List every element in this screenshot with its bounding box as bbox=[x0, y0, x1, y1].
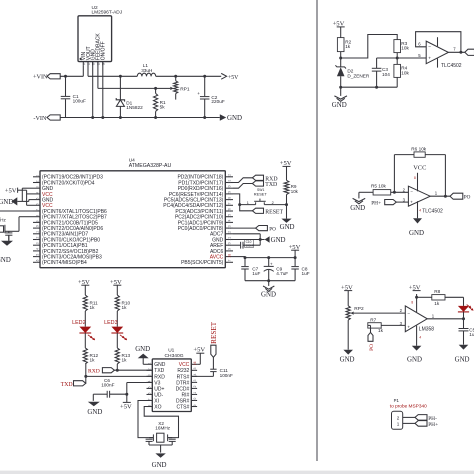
GND output arrow bbox=[220, 114, 242, 122]
node R2 D2 junction bbox=[339, 57, 342, 60]
GND arrow for GND pins bbox=[0, 188, 33, 206]
wire TXD line to U1 bbox=[86, 375, 153, 377]
svg-text:2: 2 bbox=[35, 180, 39, 182]
wire R13 to RXD line bbox=[116, 364, 119, 372]
svg-text:RESET: RESET bbox=[254, 191, 268, 196]
ground for C6 bbox=[87, 394, 102, 416]
wire RP2 wiper to inverting input bbox=[354, 312, 406, 314]
svg-text:8: 8 bbox=[414, 176, 416, 180]
+5V supply for AVCC bbox=[289, 244, 301, 258]
node feedback junction c2 bbox=[393, 191, 396, 194]
svg-text:4: 4 bbox=[148, 380, 152, 382]
svg-text:GND: GND bbox=[332, 102, 347, 109]
svg-text:9: 9 bbox=[193, 404, 197, 406]
svg-text:23: 23 bbox=[228, 225, 232, 229]
+5V supply for R2 bbox=[333, 21, 345, 38]
svg-text:TLC4502: TLC4502 bbox=[422, 208, 443, 214]
wire V3 pin to C6 bbox=[127, 383, 153, 395]
wire R5 left to ground bbox=[359, 192, 373, 198]
wire node A to R3 top bbox=[341, 35, 398, 59]
wire PC0 to PO flag bbox=[233, 227, 256, 229]
svg-text:LM358: LM358 bbox=[419, 326, 435, 332]
svg-text:PO: PO bbox=[464, 195, 471, 201]
svg-text:GND: GND bbox=[340, 357, 355, 364]
svg-text:30: 30 bbox=[228, 185, 232, 189]
node R8 branch junction bbox=[415, 296, 418, 299]
svg-text:6: 6 bbox=[35, 203, 39, 205]
svg-text:-VIN: -VIN bbox=[33, 115, 47, 122]
svg-text:PH+: PH+ bbox=[371, 200, 381, 206]
resistor R8 1k bbox=[417, 289, 464, 306]
capacitor C6 100nF bbox=[93, 378, 127, 398]
capacitor C3 104 bbox=[372, 58, 390, 87]
svg-text:2: 2 bbox=[148, 368, 152, 370]
svg-text:GND: GND bbox=[227, 115, 242, 122]
wire caps bottom rail bbox=[245, 279, 295, 282]
svg-text:CTS#: CTS# bbox=[177, 404, 190, 410]
svg-text:+5V: +5V bbox=[5, 187, 17, 194]
regulator U2 LM2596T-ADJ bbox=[78, 5, 123, 66]
LED LED1 bbox=[458, 297, 473, 319]
bottom edge bar bbox=[0, 471, 474, 474]
ground under op-amp2 bbox=[409, 218, 424, 237]
wire -VIN rail bbox=[60, 117, 220, 119]
svg-text:−: − bbox=[428, 45, 431, 50]
svg-text:1: 1 bbox=[35, 175, 39, 177]
wire feedback loop circuit2 bbox=[394, 155, 445, 197]
PO net flag bbox=[256, 226, 276, 233]
resistor R2 1k bbox=[337, 38, 351, 58]
+5V supply for R11 bbox=[78, 279, 90, 295]
svg-text:8: 8 bbox=[35, 215, 39, 217]
svg-text:7: 7 bbox=[35, 209, 39, 211]
svg-text:+: + bbox=[410, 199, 413, 204]
svg-text:3: 3 bbox=[35, 186, 39, 188]
wire PC6 reset net bbox=[233, 194, 252, 211]
+5V supply for LM358 bbox=[409, 284, 421, 291]
svg-text:33uH: 33uH bbox=[141, 68, 152, 73]
wire XO to crystal bbox=[144, 407, 178, 438]
op-amp U5 LM358 bbox=[400, 294, 435, 346]
RESET net flag vertical bbox=[210, 321, 218, 357]
svg-text:(PCINT4/MISO)PB4: (PCINT4/MISO)PB4 bbox=[42, 260, 87, 266]
svg-text:25: 25 bbox=[228, 214, 232, 218]
svg-text:1N5822: 1N5822 bbox=[126, 105, 143, 110]
switch SW1 RESET bbox=[240, 188, 288, 205]
node D1 anode junction bbox=[119, 116, 122, 119]
wire op-amp2 output bbox=[430, 195, 450, 198]
svg-text:TXD: TXD bbox=[61, 382, 73, 388]
+5V supply at C6 bbox=[120, 394, 132, 410]
VCC label circuit2 bbox=[413, 164, 426, 171]
wire U2 pin3 GND down bbox=[91, 62, 94, 119]
svg-text:1uF: 1uF bbox=[252, 271, 260, 276]
ground for AVCC caps bbox=[261, 281, 276, 299]
svg-text:+5V: +5V bbox=[228, 75, 239, 81]
wire XI to crystal bbox=[138, 400, 153, 437]
svg-text:16MHz: 16MHz bbox=[0, 218, 7, 223]
ground under RP2 bbox=[340, 350, 355, 364]
output flag circuit1 bbox=[465, 49, 474, 55]
op-amp U3A TLC4502 bbox=[403, 173, 443, 219]
RESET net flag bbox=[252, 208, 283, 215]
svg-text:10k: 10k bbox=[291, 189, 299, 194]
wire XTAL2 PB7 bbox=[5, 217, 34, 232]
svg-text:4: 4 bbox=[419, 336, 421, 340]
zener diode D2 bbox=[335, 58, 369, 96]
PO input flag vertical bbox=[368, 325, 375, 350]
svg-text:U1: U1 bbox=[168, 348, 174, 354]
svg-text:XO: XO bbox=[154, 404, 161, 410]
wire U2 pin5 ON/OFF down bbox=[101, 62, 104, 119]
svg-text:1uF: 1uF bbox=[469, 332, 474, 337]
svg-text:to probe MSP340: to probe MSP340 bbox=[390, 404, 427, 410]
TXD net flag to CH340 bbox=[61, 381, 86, 388]
svg-text:6: 6 bbox=[148, 392, 152, 394]
svg-text:GND: GND bbox=[455, 357, 470, 364]
RXD net flag to CH340 bbox=[88, 368, 114, 375]
TXD net flag bbox=[252, 181, 277, 188]
svg-text:+: + bbox=[428, 57, 431, 62]
svg-text:14: 14 bbox=[35, 248, 39, 252]
svg-text:9: 9 bbox=[35, 220, 39, 222]
svg-text:P1: P1 bbox=[394, 398, 400, 403]
PH- net flag at P1 bbox=[415, 415, 437, 422]
wire U2 pin2 VOUT to diode node bbox=[88, 62, 120, 77]
resistor R6 10k bbox=[411, 146, 427, 157]
node C2 top junction bbox=[203, 75, 206, 78]
svg-text:20: 20 bbox=[228, 242, 232, 246]
svg-text:GND: GND bbox=[152, 462, 167, 469]
node switch R9 junction bbox=[285, 203, 288, 206]
svg-text:GND: GND bbox=[280, 224, 295, 231]
svg-text:100nF: 100nF bbox=[101, 382, 114, 387]
svg-text:100nF: 100nF bbox=[220, 373, 233, 378]
svg-text:GND: GND bbox=[87, 409, 102, 416]
op-amp U3B TLC4502 bbox=[418, 37, 462, 69]
+5V supply for RP2 bbox=[341, 284, 353, 305]
svg-text:PH+: PH+ bbox=[428, 422, 438, 428]
ground for crystal X2 bbox=[149, 445, 172, 469]
svg-text:R8: R8 bbox=[434, 289, 440, 294]
svg-text:16MHz: 16MHz bbox=[155, 426, 171, 431]
ground under C5 bbox=[455, 345, 470, 364]
svg-text:GND: GND bbox=[0, 257, 11, 264]
wire AVCC rail bbox=[233, 257, 295, 258]
capacitor C7 1uF bbox=[241, 258, 260, 281]
potentiometer RP2 bbox=[346, 306, 364, 350]
connector P1 to probe MSP340 bbox=[390, 398, 427, 429]
svg-text:3: 3 bbox=[148, 374, 152, 376]
+5V supply for VCC pins bbox=[5, 187, 33, 205]
svg-text:1k: 1k bbox=[345, 44, 351, 49]
svg-text:1uF: 1uF bbox=[302, 271, 310, 276]
svg-text:GND: GND bbox=[261, 291, 276, 298]
wire +5V rail to output bbox=[176, 75, 222, 77]
node C2 bottom junction bbox=[203, 116, 206, 119]
svg-text:R7: R7 bbox=[370, 317, 376, 322]
node C6 +5V junction bbox=[125, 393, 128, 396]
node D1 cathode junction bbox=[119, 75, 122, 78]
wire R7 to non-inverting input bbox=[381, 324, 405, 326]
svg-text:+: + bbox=[407, 324, 410, 329]
svg-text:−: − bbox=[410, 189, 413, 194]
capacitor C10 100nF on AREF bbox=[233, 240, 260, 249]
wire R12 to TXD line bbox=[84, 364, 87, 383]
wire op-amp1 output bbox=[448, 51, 464, 54]
ground under D2 bbox=[332, 96, 347, 109]
node R1 bottom junction bbox=[154, 116, 157, 119]
ground for U1 GND pin bbox=[135, 346, 150, 364]
resistor R11 1k bbox=[83, 295, 98, 327]
+5V output arrow bbox=[221, 73, 239, 81]
svg-text:D_ZENER: D_ZENER bbox=[347, 73, 369, 78]
capacitor C5 output filter (clipped) bbox=[459, 319, 474, 345]
svg-text:19: 19 bbox=[228, 248, 232, 252]
svg-text:28: 28 bbox=[228, 197, 232, 201]
capacitor C9 4.7uF polarized bbox=[264, 258, 289, 281]
svg-text:RXD: RXD bbox=[88, 369, 100, 375]
svg-text:ON/OFF: ON/OFF bbox=[101, 41, 107, 60]
resistor R4 10k bbox=[394, 58, 410, 87]
svg-text:13: 13 bbox=[193, 379, 197, 383]
svg-text:104: 104 bbox=[382, 72, 390, 77]
node RP1 top junction bbox=[174, 75, 177, 78]
svg-text:15: 15 bbox=[193, 367, 197, 371]
svg-text:12: 12 bbox=[193, 385, 197, 389]
resistor R1 5k bbox=[154, 88, 166, 117]
svg-text:10k: 10k bbox=[401, 70, 409, 75]
svg-text:LED3: LED3 bbox=[104, 320, 118, 326]
capacitor C1 100uF bbox=[61, 76, 86, 117]
svg-text:GND: GND bbox=[407, 357, 422, 364]
LED LED3 bbox=[104, 320, 127, 340]
svg-text:+: + bbox=[197, 91, 200, 96]
svg-text:5k: 5k bbox=[160, 105, 166, 110]
GND flag right of C10 bbox=[265, 236, 286, 244]
column divider line bbox=[316, 0, 318, 461]
potentiometer RP1 bbox=[170, 76, 190, 99]
svg-text:RESET: RESET bbox=[210, 321, 218, 344]
wire U2 pin1 VIN bbox=[82, 65, 84, 76]
RXD net flag bbox=[252, 175, 277, 182]
svg-text:LM2596T-ADJ: LM2596T-ADJ bbox=[92, 10, 123, 16]
crystal X2 16MHz bbox=[153, 421, 170, 442]
ground left of R5 bbox=[350, 198, 365, 212]
wire PH+ to non-inverting input bbox=[396, 201, 408, 203]
+VIN input connector bbox=[33, 74, 60, 81]
svg-text:100uF: 100uF bbox=[73, 98, 86, 103]
wire bottom rail circuit1 bbox=[339, 86, 397, 89]
svg-text:12: 12 bbox=[35, 237, 39, 241]
capacitor C8 1uF bbox=[291, 258, 309, 281]
svg-text:26: 26 bbox=[228, 208, 232, 212]
node AVCC caps junctions bbox=[244, 256, 297, 259]
svg-text:1k: 1k bbox=[90, 358, 96, 363]
svg-text:VCC: VCC bbox=[413, 164, 426, 171]
svg-text:16: 16 bbox=[193, 361, 197, 365]
node C1 top junction bbox=[64, 75, 67, 78]
wire RXD line to U1 bbox=[114, 369, 152, 371]
svg-text:32: 32 bbox=[228, 174, 232, 178]
svg-text:18: 18 bbox=[228, 254, 232, 258]
resistor R13 1k bbox=[115, 333, 130, 364]
svg-text:10: 10 bbox=[193, 397, 197, 401]
usb-serial U1 CH340G bbox=[147, 348, 198, 412]
crystal K1 16MHz (clipped) bbox=[0, 214, 7, 234]
svg-text:29: 29 bbox=[228, 191, 232, 195]
LED LED2 bbox=[72, 320, 95, 340]
PH+ net flag at P1 bbox=[415, 421, 438, 428]
svg-text:R6 10k: R6 10k bbox=[411, 146, 427, 151]
+5V supply for U1 VCC bbox=[193, 347, 205, 365]
svg-text:10: 10 bbox=[35, 225, 39, 229]
-VIN input connector bbox=[33, 115, 60, 122]
svg-text:22: 22 bbox=[228, 231, 232, 235]
svg-text:R5 10k: R5 10k bbox=[371, 184, 387, 189]
PO output flag circuit2 bbox=[450, 193, 471, 201]
ground under R9 bbox=[280, 205, 295, 231]
svg-text:4: 4 bbox=[35, 192, 39, 194]
microcontroller U4 ATMEGA328P-AU bbox=[33, 157, 233, 267]
svg-text:5: 5 bbox=[148, 386, 152, 388]
node R1 top junction bbox=[154, 87, 157, 90]
svg-text:GND: GND bbox=[271, 237, 286, 244]
resistor R12 1k bbox=[83, 333, 98, 364]
resistor R3 10k bbox=[394, 40, 410, 58]
svg-text:ATMEGA328P-AU: ATMEGA328P-AU bbox=[129, 163, 172, 169]
wire +VIN rail bbox=[60, 75, 83, 77]
svg-text:+VIN: +VIN bbox=[33, 74, 48, 81]
svg-text:2: 2 bbox=[397, 416, 400, 421]
wire op-amp3 output bbox=[427, 317, 465, 320]
svg-text:RP2: RP2 bbox=[354, 306, 364, 312]
wire R5 to inverting input bbox=[391, 191, 409, 193]
ground under op-amp3 bbox=[407, 346, 422, 364]
PH+ input flag bbox=[371, 200, 396, 207]
svg-text:10k: 10k bbox=[401, 45, 409, 50]
wire node B to op-amp bbox=[377, 57, 427, 59]
svg-text:24: 24 bbox=[228, 219, 232, 223]
resistor R5 10k bbox=[371, 184, 391, 195]
svg-text:LED2: LED2 bbox=[72, 320, 86, 326]
svg-text:RP1: RP1 bbox=[180, 86, 190, 92]
svg-text:−: − bbox=[407, 311, 410, 316]
ground for crystal bbox=[0, 235, 13, 264]
svg-text:RESET: RESET bbox=[265, 209, 283, 215]
inductor L1 33uH bbox=[120, 63, 175, 76]
svg-text:+5V: +5V bbox=[193, 347, 205, 354]
diode D1 1N5822 bbox=[116, 76, 143, 117]
capacitor crystal right load bbox=[168, 438, 176, 445]
svg-text:17: 17 bbox=[228, 259, 232, 263]
capacitor C11 100nF reset bbox=[191, 357, 233, 378]
svg-text:100nF: 100nF bbox=[246, 244, 254, 248]
svg-text:16: 16 bbox=[35, 259, 39, 263]
svg-text:1k: 1k bbox=[122, 358, 128, 363]
svg-text:GND: GND bbox=[350, 205, 365, 212]
svg-text:11: 11 bbox=[35, 231, 39, 235]
svg-text:PO: PO bbox=[369, 344, 375, 351]
capacitor crystal left load bbox=[146, 438, 154, 445]
svg-text:1: 1 bbox=[247, 201, 249, 205]
wire feedback loop circuit1 bbox=[416, 32, 461, 53]
wire PD1 to RXD flag bbox=[233, 178, 252, 183]
svg-text:TXD: TXD bbox=[265, 182, 277, 188]
svg-text:1: 1 bbox=[397, 422, 400, 427]
capacitor C2 220uF bbox=[197, 76, 225, 117]
wire PD0 to TXD flag bbox=[233, 184, 252, 189]
svg-text:4: 4 bbox=[419, 208, 421, 212]
wire feedback to RP1 wiper bbox=[156, 87, 171, 89]
svg-text:+5V: +5V bbox=[120, 404, 132, 411]
resistor R9 10k bbox=[284, 180, 299, 204]
svg-text:PB5(SCK/PCINT5): PB5(SCK/PCINT5) bbox=[181, 260, 224, 266]
svg-text:GND: GND bbox=[135, 346, 150, 353]
svg-text:27: 27 bbox=[228, 202, 232, 206]
+5V supply for R9 bbox=[280, 160, 292, 180]
svg-text:220uF: 220uF bbox=[211, 99, 224, 104]
svg-text:+: + bbox=[270, 261, 273, 266]
svg-text:11: 11 bbox=[193, 392, 197, 396]
wire ADC7 to gnd net bbox=[233, 234, 260, 245]
svg-text:1k: 1k bbox=[122, 305, 128, 310]
svg-text:8: 8 bbox=[411, 301, 413, 305]
svg-text:2: 2 bbox=[272, 201, 274, 205]
svg-text:31: 31 bbox=[228, 180, 232, 184]
resistor R7 1k bbox=[368, 317, 384, 333]
svg-text:GND: GND bbox=[0, 199, 13, 206]
svg-text:13: 13 bbox=[35, 242, 39, 246]
svg-text:1k: 1k bbox=[90, 305, 96, 310]
svg-text:1k: 1k bbox=[434, 301, 440, 306]
+5V supply for R10 bbox=[110, 279, 122, 295]
svg-text:5: 5 bbox=[35, 198, 39, 200]
svg-text:1k: 1k bbox=[378, 328, 384, 333]
capacitor crystal load bbox=[5, 231, 12, 241]
node R3 R4 junction bbox=[396, 57, 399, 60]
svg-text:4.7uF: 4.7uF bbox=[276, 271, 288, 276]
svg-text:GND: GND bbox=[409, 230, 424, 237]
svg-text:TLC4502: TLC4502 bbox=[441, 63, 462, 69]
resistor R10 1k bbox=[115, 295, 130, 327]
wire U2 pin4 FEEDBACK bbox=[98, 62, 156, 89]
wire XTAL1 PB6 bbox=[0, 210, 33, 212]
svg-text:PO: PO bbox=[269, 227, 276, 233]
wire GND pin21 net bbox=[233, 238, 265, 241]
svg-text:1: 1 bbox=[148, 362, 152, 364]
svg-text:21: 21 bbox=[228, 237, 232, 241]
svg-text:15: 15 bbox=[35, 254, 39, 258]
